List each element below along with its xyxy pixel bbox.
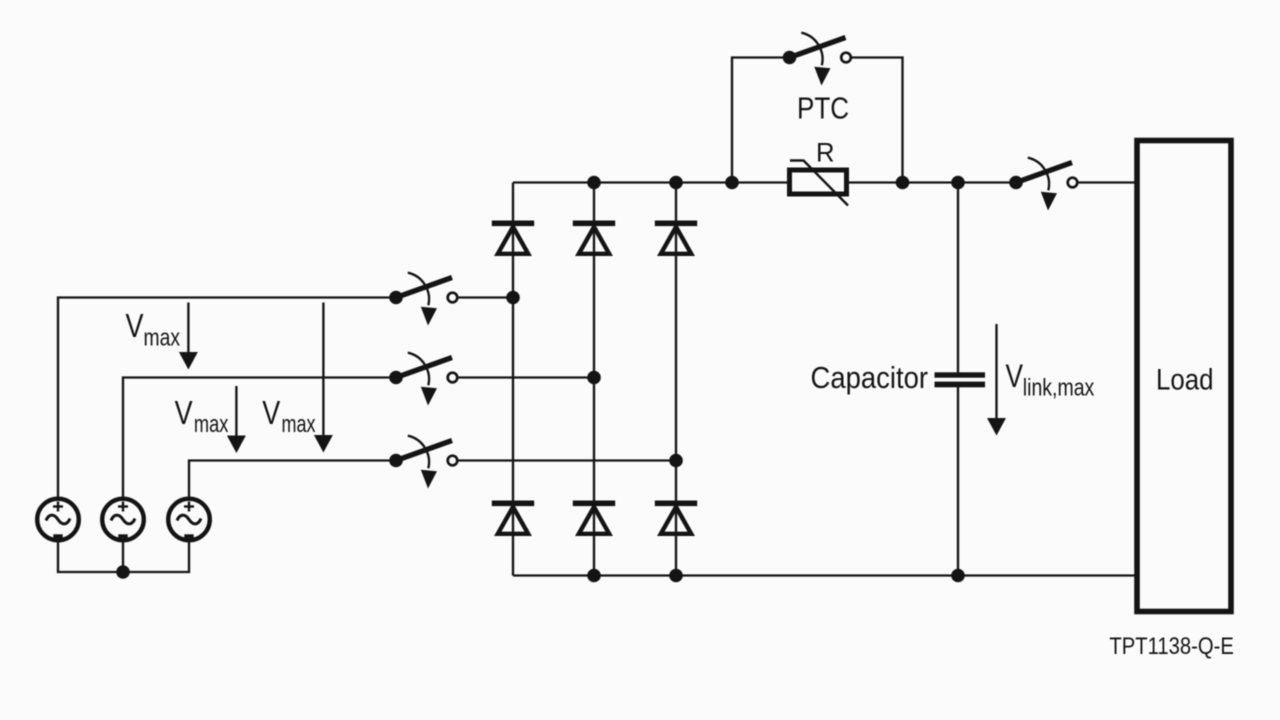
- wire phase3 switch to bridge: [459, 459, 677, 461]
- node capacitor top: [951, 176, 965, 190]
- wire source2 bottom stub: [122, 541, 124, 573]
- switch S3 phase3: [389, 436, 457, 489]
- diode D1 top leg1: [492, 221, 534, 254]
- wire phase3 source to switch: [189, 461, 390, 499]
- svg-text:Capacitor: Capacitor: [811, 361, 929, 395]
- svg-text:Load: Load: [1156, 364, 1214, 397]
- wire top rail: [513, 181, 1010, 183]
- load block: [1137, 141, 1231, 612]
- svg-text:TPT1138-Q-E: TPT1138-Q-E: [1109, 633, 1234, 660]
- node neutral junction: [116, 565, 130, 579]
- arrow Vmax phase2: [227, 386, 246, 453]
- node PTC loop left: [725, 176, 739, 190]
- wire bridge leg3: [675, 183, 677, 576]
- wire bridge leg2: [593, 183, 595, 576]
- svg-text:link,max: link,max: [1023, 375, 1095, 402]
- label Vmax1: [126, 307, 181, 352]
- svg-text:V: V: [175, 394, 193, 431]
- wire capacitor branch top: [957, 183, 959, 374]
- node phase1 bridge: [506, 291, 520, 305]
- wire phase1 switch to bridge: [459, 296, 514, 298]
- diode D6 bottom leg3: [655, 501, 697, 534]
- diode D5 bottom leg2: [573, 501, 615, 534]
- wire phase2 switch to bridge: [459, 376, 595, 378]
- node bottom rail leg2: [587, 569, 601, 583]
- diode D3 top leg3: [655, 221, 697, 254]
- wire bridge leg1: [512, 183, 514, 576]
- voltage source V3: [168, 499, 210, 541]
- diode D4 bottom leg1: [492, 501, 534, 534]
- svg-text:V: V: [262, 394, 280, 431]
- node capacitor bottom: [951, 569, 965, 583]
- label Vlink,max: [1006, 358, 1095, 402]
- switch S5 DC link: [1009, 158, 1077, 211]
- svg-text:max: max: [144, 325, 181, 352]
- node bottom rail leg3: [669, 569, 683, 583]
- svg-text:PTC: PTC: [797, 91, 849, 126]
- label Vmax3: [262, 394, 315, 438]
- wire top rail after DC switch: [1079, 181, 1137, 183]
- node phase3 bridge: [669, 454, 683, 468]
- wire source neutral bus: [58, 541, 189, 573]
- node bridge top leg2: [587, 176, 601, 190]
- node phase2 bridge: [587, 371, 601, 385]
- node bridge top leg3: [669, 176, 683, 190]
- resistor R PTC thermistor: [790, 161, 849, 206]
- svg-text:max: max: [194, 411, 229, 438]
- node PTC loop right: [896, 176, 910, 190]
- wire PTC loop left: [732, 58, 783, 183]
- svg-text:max: max: [282, 411, 316, 438]
- label Vmax2: [175, 394, 229, 438]
- svg-text:R: R: [816, 138, 835, 168]
- wire capacitor branch bottom: [957, 387, 959, 576]
- arrow Vlink,max: [987, 324, 1006, 436]
- switch S4 PTC bypass: [783, 33, 851, 86]
- switch S2 phase2: [389, 353, 457, 406]
- svg-text:V: V: [1006, 358, 1024, 394]
- arrow Vmax phase3: [314, 303, 333, 453]
- voltage source V2: [102, 499, 144, 541]
- svg-text:V: V: [126, 307, 144, 344]
- wire PTC loop right: [852, 58, 903, 183]
- arrow Vmax phase1: [179, 303, 198, 370]
- diode D2 top leg2: [573, 221, 615, 254]
- wire phase1 source to switch: [58, 298, 390, 499]
- wire phase2 source to switch: [123, 378, 390, 499]
- capacitor C1: [935, 372, 986, 387]
- voltage source V1: [37, 499, 79, 541]
- wire bottom rail: [513, 574, 1136, 576]
- switch S1 phase1: [389, 273, 457, 326]
